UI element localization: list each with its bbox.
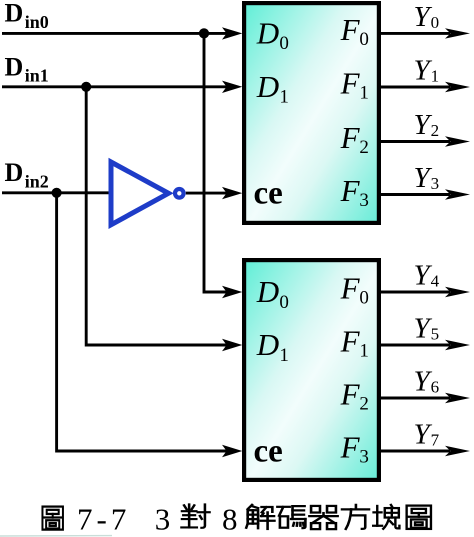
wire inverter output to U1 ce <box>186 192 228 195</box>
inverter U3 bubble <box>175 189 184 198</box>
label Y2 <box>414 109 440 141</box>
inverter U3 triangle <box>111 162 169 225</box>
node J3 on Din2 <box>52 188 62 198</box>
wire output Y1 <box>381 86 450 89</box>
label U2 F3 <box>340 429 369 467</box>
arrow Y3 <box>445 189 470 199</box>
label U1 D0 <box>256 16 289 55</box>
caption glyph kuai <box>373 505 399 529</box>
svg-text:1: 1 <box>279 345 289 366</box>
arrow into U2 D0 <box>222 286 242 298</box>
arrow Y5 <box>445 340 470 350</box>
svg-text:in0: in0 <box>25 12 49 32</box>
svg-text:D: D <box>5 158 24 187</box>
label U1 D1 <box>256 69 289 108</box>
svg-text:D: D <box>5 0 24 28</box>
svg-text:in2: in2 <box>25 172 49 192</box>
svg-text:1: 1 <box>359 341 369 362</box>
arrow into U2 ce <box>222 445 242 457</box>
wire Din0 horizontal <box>2 32 228 35</box>
svg-text:3: 3 <box>359 447 369 468</box>
label Y3 <box>414 162 440 194</box>
bottom edge scan artifact line <box>0 535 112 537</box>
svg-text:D: D <box>256 16 279 51</box>
svg-text:0: 0 <box>359 288 369 309</box>
decoder block U1 <box>244 3 379 223</box>
label U1 F0 <box>340 12 369 50</box>
svg-text:ce: ce <box>254 433 283 469</box>
wire output Y3 <box>381 193 450 196</box>
svg-text:D: D <box>256 69 279 104</box>
svg-text:F: F <box>340 120 361 155</box>
wire from J2 down to U2 D1 <box>86 87 228 345</box>
label U1 F2 <box>340 120 369 158</box>
wire output Y7 <box>381 450 450 453</box>
svg-text:1: 1 <box>279 87 289 108</box>
caption glyph dui <box>182 504 210 527</box>
node J1 on Din0 <box>199 28 209 38</box>
caption glyph tu 1 <box>42 507 62 530</box>
label U1 F3 <box>340 173 369 211</box>
wire output Y2 <box>381 140 450 143</box>
svg-text:D: D <box>5 52 24 81</box>
wire output Y0 <box>381 32 450 35</box>
label U1 F1 <box>340 65 369 103</box>
node J2 on Din1 <box>81 82 91 92</box>
caption glyph tu 2 <box>407 506 431 529</box>
label U2 F1 <box>340 323 369 361</box>
svg-text:F: F <box>340 376 361 411</box>
label Din0 <box>5 0 49 32</box>
wire from J1 down to U2 D0 <box>204 33 228 292</box>
svg-text:2: 2 <box>431 121 440 140</box>
arrow Y4 <box>445 287 470 297</box>
label U2 F0 <box>340 270 369 308</box>
wire output Y4 <box>381 291 450 294</box>
label Y0 <box>414 1 440 33</box>
svg-text:F: F <box>340 270 361 305</box>
svg-text:0: 0 <box>359 29 369 50</box>
svg-text:0: 0 <box>431 13 440 32</box>
svg-text:1: 1 <box>359 83 369 104</box>
label U2 F2 <box>340 376 369 414</box>
svg-text:4: 4 <box>431 271 440 290</box>
wire output Y6 <box>381 397 450 400</box>
arrow into U2 D1 <box>222 339 242 351</box>
svg-text:2: 2 <box>359 394 369 415</box>
svg-text:F: F <box>340 12 361 47</box>
svg-text:D: D <box>256 327 279 362</box>
label Din1 <box>5 52 49 85</box>
caption glyph fang <box>342 505 369 529</box>
wire Din2 to inverter input <box>2 191 111 194</box>
label U2 D0 <box>256 274 289 313</box>
CAPTION <box>42 504 431 529</box>
svg-text:8: 8 <box>222 502 238 537</box>
label Y1 <box>414 54 440 86</box>
label Y5 <box>414 312 440 344</box>
svg-text:0: 0 <box>279 33 289 54</box>
label U2 D1 <box>256 327 289 366</box>
svg-text:0: 0 <box>279 292 289 313</box>
svg-text:F: F <box>340 323 361 358</box>
svg-text:F: F <box>340 173 361 208</box>
svg-text:7: 7 <box>431 430 440 449</box>
label Y6 <box>414 365 440 397</box>
arrow Y7 <box>445 446 470 456</box>
svg-text:6: 6 <box>431 377 440 396</box>
svg-text:ce: ce <box>254 175 283 211</box>
svg-text:1: 1 <box>431 66 440 85</box>
svg-text:3: 3 <box>431 174 440 193</box>
svg-text:3: 3 <box>155 502 171 537</box>
caption glyph qi <box>309 506 337 529</box>
svg-text:in1: in1 <box>25 66 49 86</box>
label Y7 <box>414 418 440 450</box>
arrow Y1 <box>445 82 470 92</box>
svg-text:7-7: 7-7 <box>77 502 130 537</box>
svg-text:D: D <box>256 274 279 309</box>
svg-text:F: F <box>340 429 361 464</box>
svg-text:F: F <box>340 65 361 100</box>
svg-text:3: 3 <box>359 190 369 211</box>
decoder block U2 <box>244 260 379 480</box>
arrow Y0 <box>445 28 470 38</box>
label Din2 <box>5 158 49 191</box>
label Y4 <box>414 259 440 291</box>
arrow into U1 ce <box>222 187 242 199</box>
arrow into U1 D1 <box>222 81 242 93</box>
wire output Y5 <box>381 344 450 347</box>
arrow Y2 <box>445 136 470 146</box>
svg-text:2: 2 <box>359 137 369 158</box>
arrow Y6 <box>445 393 470 403</box>
wire Din1 horizontal <box>2 85 228 88</box>
caption glyph ma <box>277 506 305 528</box>
wire from J3 down to U2 ce <box>57 193 228 451</box>
arrow into U1 D0 <box>222 27 242 39</box>
caption glyph jie <box>246 505 274 529</box>
svg-text:5: 5 <box>431 324 440 343</box>
